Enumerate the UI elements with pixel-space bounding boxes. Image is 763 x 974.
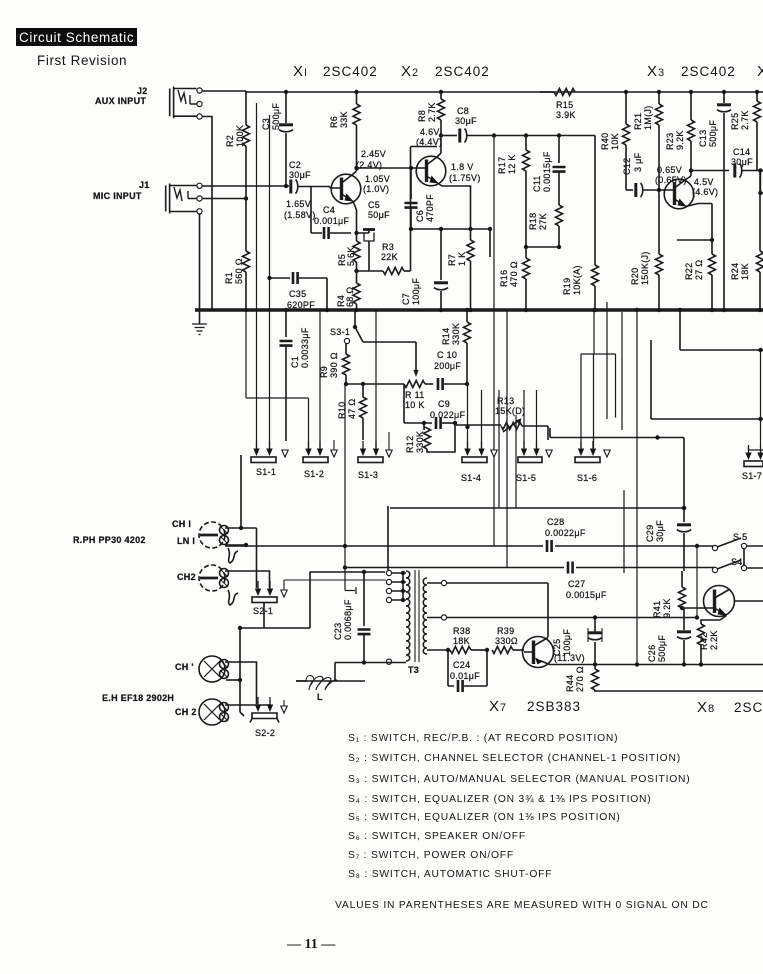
svg-text:390 Ω: 390 Ω [329,352,339,378]
jack J1 [166,183,202,214]
wire: X8 collector right [735,600,763,602]
svg-text:C9: C9 [438,399,450,409]
svg-text:0.0068μF: 0.0068μF [343,599,353,640]
svg-text:0.001μF: 0.001μF [314,216,350,226]
wire: line B C28 line [225,544,715,548]
capacitor C12 [626,183,665,197]
resistor R2 [243,91,250,201]
switch S1-1 [251,441,288,463]
svg-text:C28: C28 [547,517,564,527]
capacitor C4 [311,186,351,239]
switch S3-1 [344,310,363,344]
resistor R6 [353,90,360,146]
capacitor C35 [267,272,329,312]
svg-text:S1-4: S1-4 [461,473,481,483]
capacitor C13 [717,90,731,312]
svg-text:R44: R44 [565,675,575,692]
svg-text:200μF: 200μF [434,361,461,371]
svg-text:C5: C5 [368,200,380,210]
svg-text:10K(A): 10K(A) [572,265,582,295]
svg-text:R9: R9 [319,366,329,378]
svg-text:R6: R6 [329,116,339,128]
svg-text:9.2K: 9.2K [675,130,685,150]
svg-text:S4,: S4, [731,557,745,567]
svg-text:R2: R2 [225,135,235,147]
wire: EH CH2 lead [225,680,270,716]
svg-text:S1-5: S1-5 [516,473,536,483]
svg-text:R19: R19 [562,278,572,295]
wire: EH CH1 lead [225,628,257,704]
svg-text:C29: C29 [645,525,655,542]
transformer T3 [406,570,427,662]
svg-text:J1: J1 [139,180,150,190]
wire: R9 node line [346,382,404,386]
switch S2-2 [250,697,287,723]
svg-text:4.5V: 4.5V [694,177,714,187]
svg-text:S1-2: S1-2 [304,469,324,479]
wire: X1 emitter down [353,201,357,233]
svg-text:(4.4V): (4.4V) [416,137,442,147]
svg-text:Circuit Schematic: Circuit Schematic [19,30,134,45]
svg-text:R 11: R 11 [405,390,425,400]
svg-text:S₂ : SWITCH, CHANNEL SELECT: S₂ : SWITCH, CHANNEL SELECTOR (CHANNEL-1… [348,753,681,764]
svg-text:560 Ω: 560 Ω [234,258,244,284]
resistor R25 [754,90,761,171]
svg-text:0.0022μF: 0.0022μF [545,528,586,538]
svg-text:2.45V: 2.45V [361,149,386,159]
svg-text:100μF: 100μF [562,629,572,656]
svg-text:R23: R23 [665,133,675,150]
capacitor C6 [405,166,418,231]
svg-text:C2: C2 [289,160,301,170]
svg-text:CH ': CH ' [175,662,194,672]
svg-text:R10: R10 [337,402,347,419]
resistor R40 [623,90,630,190]
svg-text:2SC4: 2SC4 [734,700,763,715]
svg-text:(0.65V): (0.65V) [655,175,687,185]
svg-text:0.0015μF: 0.0015μF [542,151,552,192]
svg-text:R41: R41 [652,601,662,618]
svg-text:S1-7: S1-7 [742,471,762,481]
transistor X8 [682,586,735,617]
svg-text:S1-1: S1-1 [256,467,276,477]
svg-text:S₇ : SWITCH, POWER ON/OFF: S₇ : SWITCH, POWER ON/OFF [348,850,514,861]
resistor R11 [404,381,433,388]
wire: CH2 lead [225,571,270,588]
svg-text:150K(J): 150K(J) [640,251,650,285]
svg-text:S₁ : SWITCH, REC/P.B. : (AT: S₁ : SWITCH, REC/P.B. : (AT RECORD POSIT… [348,733,618,744]
svg-text:S₃ : SWITCH, AUTO/MANUAL SE: S₃ : SWITCH, AUTO/MANUAL SELECTOR (MANUA… [348,774,691,785]
svg-text:CH I: CH I [172,519,191,529]
resistor R14 [464,308,471,384]
svg-text:R1: R1 [224,272,234,284]
capacitor C7 [434,229,448,312]
svg-text:0.022μF: 0.022μF [430,410,466,420]
resistor R3 [357,268,411,275]
resistor R41 [679,571,686,610]
svg-text:X: X [757,63,763,80]
svg-text:J2: J2 [137,86,148,96]
svg-text:C35: C35 [289,289,306,299]
svg-text:18K: 18K [740,263,750,280]
svg-text:S₈ : SWITCH, AUTOMATIC SHUT: S₈ : SWITCH, AUTOMATIC SHUT-OFF [348,869,552,880]
switch S1-2 [303,440,337,463]
capacitor C28 [547,540,552,552]
svg-text:10K: 10K [610,133,620,150]
resistor R22 [709,240,716,312]
svg-text:2SC402: 2SC402 [435,64,490,79]
svg-text:C27: C27 [568,579,585,589]
wire: S2-1 to S2-2 link [238,572,310,631]
svg-text:E.H EF18 2902H: E.H EF18 2902H [102,693,174,703]
wire: vertical to T3 tap [387,506,389,570]
capacitor C9 [404,417,457,429]
svg-text:(1.0V): (1.0V) [363,184,389,194]
svg-text:X3: X3 [647,63,665,80]
svg-text:— 11 —: — 11 — [286,937,336,952]
capacitor C25 [588,618,602,665]
svg-text:R14: R14 [441,328,451,345]
svg-text:27K: 27K [538,213,548,230]
resistor R13 variable [455,418,548,440]
transistor X7 [523,637,554,668]
resistor R4 [353,271,360,312]
transistor X3 [664,176,698,209]
wire: output line bottom [594,690,763,692]
svg-text:MIC INPUT: MIC INPUT [93,191,142,201]
svg-text:C14: C14 [733,147,750,157]
wire: feedback R3 to C8 node [411,147,438,272]
switch S1-5 [518,441,552,463]
wire: long verticals bus to lower section [499,302,624,573]
switch S1-6 [575,441,610,463]
svg-text:100K: 100K [235,125,245,147]
svg-text:R24: R24 [730,263,740,280]
head EH CH2 [199,699,229,725]
wire: X1 collector [356,146,358,171]
wire: line y666 [682,662,703,666]
svg-text:R.PH PP30 4202: R.PH PP30 4202 [73,535,146,545]
svg-text:470PF: 470PF [425,194,435,222]
svg-text:L: L [317,692,323,702]
wire: feeds to S1-3 [375,310,377,448]
jack J2 [170,87,202,120]
wire: x680 from bus to y350 line [678,308,763,350]
svg-text:1M(J): 1M(J) [643,106,653,131]
resistor R17 [523,136,530,250]
svg-text:R8: R8 [417,110,427,122]
svg-text:1.05V: 1.05V [365,174,390,184]
resistor R10 [360,384,367,440]
svg-text:(4.6V): (4.6V) [692,187,718,197]
wire: J1 tip to C2 [202,185,289,187]
svg-text:30μF: 30μF [289,170,311,180]
wire: right horizontals [550,340,763,510]
resistor R20 [656,190,663,312]
resistor R12 [424,423,456,452]
svg-text:30μF: 30μF [655,520,665,542]
wire: head CH1 leads [225,455,257,588]
svg-text:C6: C6 [415,210,425,222]
switch S4 [712,549,763,573]
svg-text:500μF: 500μF [708,120,718,147]
svg-text:30μF: 30μF [731,157,753,167]
wire: T3 right taps [427,580,699,637]
ground [192,310,207,335]
head RPH CH1 [199,522,238,563]
wire: C6 node line [411,227,492,257]
capacitor C11 [553,136,566,206]
wire: X7 emitter line [550,662,763,666]
wire: line A upper lower-section [390,506,686,510]
resistor R9 [343,343,350,386]
svg-text:270 Ω: 270 Ω [575,666,585,692]
wire: S5 feed vertical [695,544,699,618]
wire: sleeve to ground bus [199,214,201,310]
svg-text:R16: R16 [499,270,509,287]
transistor X2 [416,153,446,186]
svg-text:33K: 33K [339,111,349,128]
wire: verticals from jacks to S1-1 [257,103,270,448]
svg-text:4.6V: 4.6V [420,127,440,137]
wire: S3-1 arm to R11 arrow [363,342,419,377]
title block [16,28,137,46]
svg-text:R12: R12 [405,436,415,453]
svg-text:R18: R18 [528,213,538,230]
svg-text:LN I: LN I [177,536,195,546]
svg-text:C13: C13 [698,130,708,147]
resistor R15 [540,89,575,96]
svg-text:R7: R7 [447,254,457,266]
wire: x637 bus to 666 [635,308,639,665]
switch S1-7 [744,445,763,467]
svg-text:XI: XI [293,63,308,80]
svg-text:C26: C26 [647,645,657,662]
resistor R38 [427,647,489,654]
svg-text:T3: T3 [408,665,419,675]
wire: X1 collector to X2 base [354,166,419,170]
wire: feeds to S1-2 [246,310,320,448]
svg-text:0.0015μF: 0.0015μF [566,590,607,600]
svg-text:First Revision: First Revision [37,53,127,68]
capacitor C10 [438,378,469,390]
svg-text:C3: C3 [261,118,271,130]
svg-text:100μF: 100μF [411,278,421,305]
svg-text:2SC402: 2SC402 [681,64,736,79]
svg-text:C12: C12 [622,158,632,175]
svg-text:C 10: C 10 [437,350,457,360]
transistor X1 [330,171,361,204]
svg-text:X8: X8 [697,699,715,716]
resistor R39 [492,647,524,654]
wire: S1-6 feed jog [581,308,616,448]
svg-text:9.2K: 9.2K [662,598,672,618]
capacitor C27 [568,562,573,574]
svg-text:2.2K: 2.2K [709,630,719,650]
svg-text:R25: R25 [730,113,740,130]
capacitor C1 [280,308,293,441]
capacitor C5 [357,229,376,271]
svg-text:CH 2: CH 2 [175,707,197,717]
svg-text:R40: R40 [600,133,610,150]
wire: C8 node line [492,133,595,265]
wire: feeds to S1-4 [465,384,481,448]
svg-text:1.65V: 1.65V [286,199,311,209]
switch S1-4 [462,434,497,463]
switch S1-3 [358,432,392,463]
wire: J2 sleeve to ground [202,117,212,311]
wire: long vertical from C8 node to lower section [493,136,495,547]
wire: T3 bottom tap [335,659,406,681]
resistor R24 [757,171,763,313]
resistor R7 [467,240,474,312]
svg-text:R13: R13 [497,396,514,406]
capacitor C3 [279,90,293,188]
svg-text:R20: R20 [630,268,640,285]
resistor R23 [688,90,695,176]
svg-text:27 Ω: 27 Ω [694,260,704,280]
svg-text:R3: R3 [382,242,394,252]
svg-text:X7: X7 [489,698,507,715]
svg-text:2SC402: 2SC402 [323,64,378,79]
resistor R18 [556,205,563,249]
svg-text:15K(D): 15K(D) [495,406,525,416]
svg-text:R15: R15 [556,100,573,110]
wire: line C C27 line [345,567,715,569]
svg-text:500μF: 500μF [271,103,281,130]
svg-text:S 5: S 5 [733,532,747,542]
svg-text:R42: R42 [699,633,709,650]
capacitor C23 [310,570,385,665]
wire: vertical to LN1 line [343,384,356,594]
wire: R18 R17 node [526,246,559,248]
svg-text:500μF: 500μF [657,635,667,662]
svg-text:330K: 330K [451,323,461,345]
wire: feeds to S1-5 [524,390,537,448]
svg-text:2.7K: 2.7K [427,102,437,122]
wire: X2 emitter to R7 [438,183,471,240]
svg-text:S1-3: S1-3 [358,470,378,480]
resistor R8 [438,90,445,136]
svg-text:2SB383: 2SB383 [527,699,581,714]
svg-text:3 μF: 3 μF [633,152,643,172]
svg-text:C7: C7 [401,293,411,305]
svg-text:CH2: CH2 [177,572,196,582]
svg-text:R21: R21 [633,113,643,130]
svg-text:1.8 V: 1.8 V [451,162,474,172]
resistor R19 [592,265,599,312]
wire: LN1 lead [225,543,248,547]
resistor R21 [656,90,663,192]
svg-text:0.01μF: 0.01μF [450,671,480,681]
svg-text:330Ω: 330Ω [495,636,518,646]
wire: C10 node down to C9 [403,384,405,423]
capacitor C24 [448,650,487,692]
wire: C29 vertical [677,508,691,571]
svg-text:R39: R39 [497,626,514,636]
svg-text:0.65V: 0.65V [657,165,682,175]
svg-text:(1.75V): (1.75V) [449,173,481,183]
svg-text:S2-2: S2-2 [255,728,275,738]
switch S5 [712,538,763,551]
switch S2-1 [252,580,386,603]
svg-text:30μF: 30μF [455,116,477,126]
svg-text:18K: 18K [453,636,470,646]
svg-text:0.0033μF: 0.0033μF [300,327,310,368]
resistor R1 [243,199,250,313]
svg-text:47 Ω: 47 Ω [347,399,357,419]
capacitor C2 [291,180,330,194]
resistor R5 [353,231,360,273]
svg-text:R38: R38 [453,626,470,636]
ground bus [195,308,763,312]
svg-text:620PF: 620PF [287,300,315,310]
svg-text:C1: C1 [290,356,300,368]
wire: S2 link down [296,680,365,682]
svg-text:R22: R22 [684,263,694,280]
wire: J2 tip to rail [202,90,246,92]
svg-text:5.6K: 5.6K [346,246,356,266]
svg-text:C24: C24 [453,660,470,670]
resistor R44 [592,665,599,692]
capacitor C8 [439,129,494,143]
resistor R16 [523,247,530,312]
svg-text:VALUES IN PARENTHESES ARE: VALUES IN PARENTHESES ARE MEASURED WITH … [335,900,709,911]
svg-text:470 Ω: 470 Ω [509,261,519,287]
svg-text:2.7K: 2.7K [740,110,750,130]
svg-text:68 Ω: 68 Ω [345,287,355,307]
capacitor C14 [689,164,763,196]
wire: T3 left taps [386,570,406,602]
svg-text:12 K: 12 K [507,154,517,174]
wire: J1 ring to R2 node [202,198,246,200]
svg-text:S₄ : SWITCH, EQUALIZER (ON: S₄ : SWITCH, EQUALIZER (ON 3¾ & 1⅜ IPS P… [348,794,652,805]
svg-text:22K: 22K [381,252,398,262]
svg-text:S1-6: S1-6 [577,473,597,483]
svg-text:C4: C4 [323,205,335,215]
svg-text:330K: 330K [415,431,425,453]
svg-text:C11: C11 [532,175,542,192]
svg-text:R17: R17 [497,157,507,174]
head RPH CH2 [199,565,238,605]
svg-text:(2.4V): (2.4V) [356,160,382,170]
svg-text:C23: C23 [333,623,343,640]
svg-text:AUX INPUT: AUX INPUT [95,96,146,106]
wire: top supply rail [246,91,763,93]
svg-text:(11.3V): (11.3V) [554,653,585,663]
svg-text:S₅ : SWITCH, EQUALIZER (ON: S₅ : SWITCH, EQUALIZER (ON 1⅜ IPS POSITI… [348,812,621,823]
svg-text:S₆ : SWITCH, SPEAKER ON/OFF: S₆ : SWITCH, SPEAKER ON/OFF [348,831,526,842]
svg-text:S3-1: S3-1 [330,327,350,337]
svg-text:10 K: 10 K [405,400,425,410]
head EH CH1 [199,656,229,682]
resistor R42 [698,616,727,665]
wire: feeds to S1-7 [749,348,763,450]
svg-text:3.9K: 3.9K [556,110,576,120]
svg-text:1 K: 1 K [457,252,467,266]
wire: X2 collector [440,136,442,154]
coil L [296,675,337,690]
svg-text:S2-1: S2-1 [253,606,273,616]
capacitor C26 [677,608,691,665]
svg-text:(1.58V): (1.58V) [284,210,316,220]
wire: X3 emitter to R22 [677,204,714,243]
svg-text:C8: C8 [457,106,469,116]
svg-text:50μF: 50μF [368,210,390,220]
svg-text:X2: X2 [401,63,419,80]
